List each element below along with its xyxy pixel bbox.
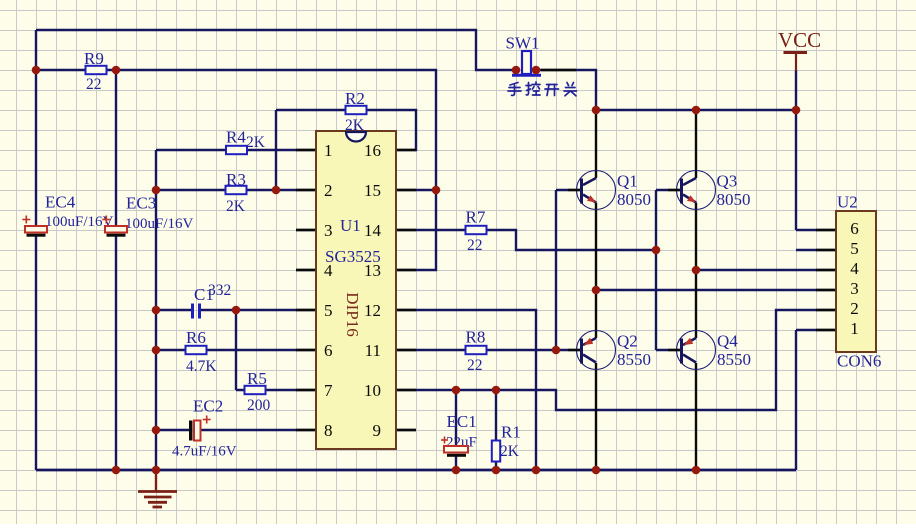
svg-text:EC1: EC1 <box>447 412 477 431</box>
svg-text:U2: U2 <box>837 193 858 212</box>
svg-text:332: 332 <box>208 282 231 299</box>
svg-text:10: 10 <box>364 381 381 400</box>
svg-text:SW1: SW1 <box>506 34 540 53</box>
svg-text:R9: R9 <box>84 49 104 68</box>
svg-text:8: 8 <box>324 421 333 440</box>
svg-text:16: 16 <box>364 141 381 160</box>
svg-text:2K: 2K <box>345 117 365 134</box>
svg-text:EC2: EC2 <box>193 397 223 416</box>
svg-text:R6: R6 <box>186 328 206 347</box>
svg-text:Q2: Q2 <box>617 332 638 351</box>
svg-text:DIP16: DIP16 <box>343 292 362 336</box>
svg-text:22: 22 <box>467 357 483 374</box>
svg-text:Q3: Q3 <box>717 172 738 191</box>
svg-text:8050: 8050 <box>617 190 651 209</box>
svg-text:1: 1 <box>850 319 859 338</box>
svg-text:15: 15 <box>364 181 381 200</box>
svg-text:VCC: VCC <box>778 28 821 52</box>
svg-text:200: 200 <box>247 397 271 414</box>
svg-text:12: 12 <box>364 301 381 320</box>
svg-text:4.7K: 4.7K <box>186 358 217 375</box>
svg-text:8050: 8050 <box>717 190 751 209</box>
svg-text:100uF/16V: 100uF/16V <box>125 216 194 232</box>
svg-text:R2: R2 <box>345 89 365 108</box>
svg-text:2K: 2K <box>246 134 266 151</box>
svg-text:1: 1 <box>324 141 333 160</box>
svg-text:R7: R7 <box>466 208 486 227</box>
svg-text:4.7uF/16V: 4.7uF/16V <box>172 444 237 460</box>
svg-text:2K: 2K <box>226 198 246 215</box>
svg-text:EC3: EC3 <box>126 194 156 213</box>
svg-text:R4: R4 <box>226 128 246 147</box>
svg-text:11: 11 <box>365 341 381 360</box>
svg-text:R5: R5 <box>247 369 267 388</box>
svg-text:3: 3 <box>324 221 333 240</box>
svg-text:13: 13 <box>364 261 381 280</box>
svg-text:3: 3 <box>850 279 859 298</box>
svg-text:R8: R8 <box>466 328 486 347</box>
svg-text:2: 2 <box>850 299 859 318</box>
svg-text:6: 6 <box>324 341 333 360</box>
svg-text:6: 6 <box>850 219 859 238</box>
svg-text:EC4: EC4 <box>45 193 76 212</box>
svg-text:100uF/16V: 100uF/16V <box>45 214 114 230</box>
svg-text:22: 22 <box>86 76 102 93</box>
svg-text:8550: 8550 <box>717 350 751 369</box>
svg-text:Q4: Q4 <box>717 332 738 351</box>
svg-text:22: 22 <box>467 237 483 254</box>
svg-text:9: 9 <box>373 421 382 440</box>
svg-text:U1: U1 <box>340 216 361 235</box>
svg-text:7: 7 <box>324 381 333 400</box>
svg-text:CON6: CON6 <box>837 352 881 371</box>
svg-text:5: 5 <box>324 301 333 320</box>
svg-text:R3: R3 <box>226 170 246 189</box>
svg-text:14: 14 <box>364 221 382 240</box>
svg-text:4: 4 <box>850 259 859 278</box>
svg-text:5: 5 <box>850 239 859 258</box>
svg-text:R1: R1 <box>501 423 521 442</box>
svg-text:Q1: Q1 <box>617 172 638 191</box>
svg-text:2K: 2K <box>500 443 520 460</box>
svg-text:2: 2 <box>324 181 333 200</box>
svg-text:8550: 8550 <box>617 350 651 369</box>
svg-text:4: 4 <box>324 261 333 280</box>
